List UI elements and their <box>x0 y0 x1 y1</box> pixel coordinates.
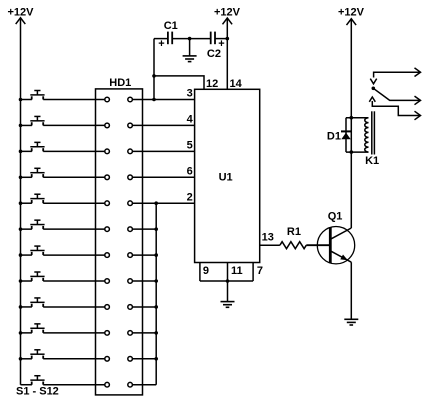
pushbutton switch S9 <box>21 298 45 307</box>
svg-text:D1: D1 <box>327 131 341 143</box>
ground (Q1 emitter) <box>344 319 358 325</box>
node bus junction row 10 <box>154 331 158 335</box>
wire HD1 row 3 to U1 <box>132 150 194 152</box>
HD1 pin circle left row 7 <box>105 253 110 258</box>
svg-text:6: 6 <box>187 165 193 177</box>
wire S12 to HD1 pin <box>43 384 105 386</box>
wire +12V rail to Q1 collector <box>350 19 352 228</box>
node junction rail-S3 <box>19 150 23 154</box>
node junction rail-S9 <box>19 305 23 309</box>
HD1 pin circle right row 8 <box>128 279 133 284</box>
capacitor C1 <box>168 32 172 45</box>
wire to ground (U1) <box>227 281 229 301</box>
svg-text:C1: C1 <box>164 20 178 32</box>
svg-text:9: 9 <box>203 265 209 277</box>
wire pins 9-11-7 common <box>200 280 253 282</box>
HD1 pin circle left row 2 <box>105 123 110 128</box>
resistor R1 <box>280 242 306 249</box>
node junction pin12 branch <box>152 74 156 78</box>
svg-text:12: 12 <box>206 78 218 90</box>
capacitor C2 <box>211 32 215 45</box>
pushbutton switch S6 <box>21 220 45 229</box>
U1 pin 11 stub <box>227 263 229 282</box>
wire relay coil top <box>346 117 369 119</box>
svg-text:14: 14 <box>230 78 243 90</box>
wire HD1 row 4 to U1 <box>132 176 194 178</box>
wire relay coil bottom <box>346 151 369 153</box>
wire to ground (capacitors) <box>189 39 191 56</box>
svg-text:K1: K1 <box>365 155 379 167</box>
node +12V rail junction <box>226 37 230 41</box>
pushbutton switch S7 <box>21 246 45 255</box>
HD1 pin circle left row 12 <box>105 382 110 387</box>
svg-text:13: 13 <box>262 232 274 244</box>
HD1 pin circle left row 1 <box>105 97 110 102</box>
pushbutton switch S2 <box>21 116 45 125</box>
+12V supply arrow (right) <box>347 19 357 25</box>
pushbutton switch S10 <box>21 324 45 333</box>
diode D1 <box>341 118 351 152</box>
wire S5 to HD1 pin <box>43 202 105 204</box>
wire to U1 pin 12 <box>154 76 204 89</box>
HD1 pin circle right row 3 <box>128 149 133 154</box>
HD1 pin circle left row 5 <box>105 201 110 206</box>
node bus junction row 7 <box>154 253 158 257</box>
node junction rail-S5 <box>19 201 23 205</box>
svg-text:+12V: +12V <box>8 7 35 19</box>
node relay top junction <box>350 116 354 120</box>
wire common bus (rows 6-12 to pin2 net) <box>155 203 157 385</box>
relay contact NC terminal <box>370 72 420 84</box>
node capacitor ground junction <box>188 37 192 41</box>
+12V supply arrow (left) <box>16 18 26 24</box>
HD1 pin circle left row 6 <box>105 227 110 232</box>
wire HD1 row 2 to U1 <box>132 124 194 126</box>
relay core <box>372 111 375 154</box>
wire S3 to HD1 pin <box>43 150 105 152</box>
HD1 pin circle right row 10 <box>128 331 133 336</box>
relay armature (common) <box>373 88 420 100</box>
wire +12V to U1 pin 14 <box>226 18 228 89</box>
wire C2 to +12V rail <box>215 38 227 40</box>
HD1 pin circle right row 7 <box>128 253 133 258</box>
terminal arrow NC <box>415 68 421 77</box>
U1 pin 9 stub <box>199 263 201 282</box>
terminal arrow NO <box>415 111 421 120</box>
ground (capacitors) <box>183 56 197 62</box>
HD1 pin circle right row 9 <box>128 305 133 310</box>
pushbutton switch S12 <box>21 376 45 385</box>
wire to C2 <box>190 38 211 40</box>
HD1 pin circle left row 11 <box>105 357 110 362</box>
svg-text:+: + <box>218 38 224 50</box>
node junction rail-S1 <box>19 98 23 102</box>
node relay armature pivot <box>372 87 376 91</box>
wire left +12V rail <box>20 18 22 385</box>
+12V supply arrow (middle) <box>223 18 233 24</box>
wire S2 to HD1 pin <box>43 124 105 126</box>
node relay bottom junction <box>350 150 354 154</box>
wire U1 pin 13 to R1 <box>260 244 280 246</box>
svg-text:3: 3 <box>187 88 193 100</box>
wire S8 to HD1 pin <box>43 280 105 282</box>
pushbutton switch S5 <box>21 194 45 203</box>
svg-text:4: 4 <box>187 114 194 126</box>
node junction rail-S2 <box>19 124 23 128</box>
pushbutton switch S4 <box>21 168 45 177</box>
svg-text:Q1: Q1 <box>328 211 343 223</box>
terminal arrow common <box>415 96 421 105</box>
wire to C1 <box>154 38 168 40</box>
HD1 pin circle right row 6 <box>128 227 133 232</box>
svg-text:R1: R1 <box>287 226 301 238</box>
node bus junction row 8 <box>154 279 158 283</box>
HD1 pin circle right row 2 <box>128 123 133 128</box>
node junction rail-S6 <box>19 227 23 231</box>
node bus to pin2 wire junction <box>154 201 158 205</box>
IC U1 <box>195 89 260 262</box>
wire HD1 row 8 to bus <box>132 280 156 282</box>
wire S4 to HD1 pin <box>43 176 105 178</box>
svg-text:11: 11 <box>231 265 243 277</box>
U1 pin 7 stub <box>252 263 254 282</box>
HD1 pin circle left row 8 <box>105 279 110 284</box>
pushbutton switch S11 <box>21 350 45 359</box>
pushbutton switch S3 <box>21 142 45 151</box>
wire HD1 row 11 to bus <box>132 358 156 360</box>
wire C1 to ground node <box>172 38 189 40</box>
node ground junction U1 <box>226 279 230 283</box>
relay contact NO terminal <box>369 97 420 116</box>
node junction rail-S4 <box>19 175 23 179</box>
wire S7 to HD1 pin <box>43 254 105 256</box>
HD1 pin circle left row 4 <box>105 175 110 180</box>
transistor Q1 <box>317 227 354 264</box>
wire HD1 row 6 to bus <box>132 228 156 230</box>
svg-text:2: 2 <box>187 191 193 203</box>
wire HD1 row 1 to U1 <box>132 99 194 101</box>
svg-text:+12V: +12V <box>338 7 365 19</box>
wire S11 to HD1 pin <box>43 358 105 360</box>
wire HD1 row 12 to bus <box>132 384 156 386</box>
svg-text:5: 5 <box>187 140 193 152</box>
wire C1 branch down to pin3 net <box>153 39 155 100</box>
connector HD1 <box>96 89 143 395</box>
HD1 pin circle right row 11 <box>128 357 133 362</box>
svg-text:+: + <box>158 38 164 50</box>
wire HD1 row 9 to bus <box>132 306 156 308</box>
wire S1 to HD1 pin <box>43 99 105 101</box>
node junction pin3 wire <box>152 98 156 102</box>
HD1 pin circle right row 1 <box>128 97 133 102</box>
pushbutton switch S8 <box>21 272 45 281</box>
node bus junction row 6 <box>154 227 158 231</box>
wire HD1 row 10 to bus <box>132 332 156 334</box>
pushbutton switch S1 <box>21 91 45 100</box>
node junction rail-S7 <box>19 253 23 257</box>
relay coil K1 <box>365 118 369 152</box>
wire S6 to HD1 pin <box>43 228 105 230</box>
HD1 pin circle left row 10 <box>105 331 110 336</box>
svg-text:S1 - S12: S1 - S12 <box>16 386 59 398</box>
svg-text:7: 7 <box>257 265 263 277</box>
wire Q1 emitter to ground <box>350 262 352 318</box>
node junction rail-S10 <box>19 331 23 335</box>
node bus junction row 11 <box>154 357 158 361</box>
HD1 pin circle right row 12 <box>128 382 133 387</box>
node junction rail-S8 <box>19 279 23 283</box>
wire S9 to HD1 pin <box>43 306 105 308</box>
HD1 pin circle left row 3 <box>105 149 110 154</box>
HD1 pin circle left row 9 <box>105 305 110 310</box>
svg-text:U1: U1 <box>219 171 233 183</box>
HD1 pin circle right row 5 <box>128 201 133 206</box>
HD1 pin circle right row 4 <box>128 175 133 180</box>
node bus junction row 9 <box>154 305 158 309</box>
svg-text:+12V: +12V <box>214 7 241 19</box>
wire HD1 row 5 to U1 <box>132 202 194 204</box>
ground (U1) <box>221 302 235 308</box>
node junction rail-S11 <box>19 357 23 361</box>
wire HD1 row 7 to bus <box>132 254 156 256</box>
wire S10 to HD1 pin <box>43 332 105 334</box>
svg-text:HD1: HD1 <box>109 77 131 89</box>
wire R1 to Q1 base <box>306 244 329 246</box>
